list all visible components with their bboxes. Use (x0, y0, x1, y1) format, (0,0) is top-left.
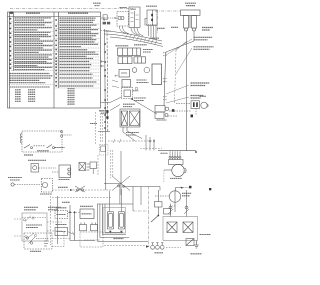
interlock switch cluster (24, 233, 52, 249)
latch switch box (90, 162, 97, 169)
splice junction star (104, 151, 160, 195)
small flag component (186, 239, 194, 246)
tall rectangle panel (152, 64, 162, 85)
long dashed bottom wire (104, 245, 146, 247)
ground symbol (194, 241, 199, 249)
relay R box (80, 205, 93, 207)
left column row numbers (10, 18, 12, 69)
door lock labels (24, 154, 33, 156)
right column row separators (54, 24, 101, 88)
callout 1 (166, 39, 192, 55)
connection verticals (70, 205, 95, 241)
blower connector box (169, 160, 184, 165)
element feed bus (97, 204, 148, 242)
feed vertical right (151, 190, 158, 222)
branch arrowheads (101, 60, 105, 67)
right column row text (60, 17, 96, 19)
right wire run 2 (175, 50, 177, 103)
heating element pair E1 (120, 109, 140, 127)
supply text blobs (157, 27, 165, 29)
relay inner text (26, 224, 42, 226)
bake element E3 (118, 212, 124, 230)
callout 2 (176, 48, 192, 74)
feed wire labels (161, 152, 168, 154)
harness labels (150, 37, 159, 39)
element label (114, 238, 124, 240)
fan relay cluster (155, 104, 191, 119)
oven light lamp L3 (11, 179, 53, 193)
door lock assembly (20, 131, 72, 152)
callout 4 (166, 97, 189, 103)
vertical drop wires (96, 110, 113, 178)
relay block K2 (134, 57, 146, 63)
oven switch S2 (145, 10, 157, 26)
connector pins P5 (151, 243, 164, 249)
door switch S3 (52, 165, 71, 178)
latch assembly dashed box (100, 145, 109, 156)
center bottom label (62, 201, 70, 203)
terminal block TB1 (181, 10, 201, 31)
part number text top (93, 2, 101, 4)
cluster exit wires (52, 232, 70, 247)
ground label (191, 253, 202, 255)
splice feed dashed wire (52, 189, 112, 191)
harness tick marks (126, 33, 157, 45)
thermal switch box (56, 207, 67, 209)
chassis boundary dash-dot line (10, 9, 180, 34)
vertical drops right of mid (146, 135, 154, 151)
wire color legend heading (10, 86, 50, 88)
probe arrows (112, 75, 119, 88)
right column bottom list (68, 88, 75, 90)
dashed enclosure bottom-center (80, 232, 103, 247)
oven sensor label (130, 98, 133, 100)
latch relay K3 (22, 213, 47, 241)
oven light label (8, 177, 22, 179)
left column row text (15, 17, 52, 19)
hi-limit label (126, 132, 139, 134)
stray terminal mark (209, 188, 211, 190)
cluster label (30, 250, 41, 252)
lamp label (40, 193, 52, 195)
receptacle feed wires (168, 190, 189, 217)
table header text (10, 12, 13, 14)
arrow to elements (68, 232, 75, 235)
receptacle label right (200, 234, 211, 236)
element box label (123, 103, 135, 105)
micro switch with X (79, 163, 90, 171)
thermostat box (122, 80, 131, 88)
sensor branch wires (101, 97, 122, 103)
oven lamp label (120, 7, 128, 9)
wires into relay (14, 219, 62, 236)
trailing dashes (166, 247, 181, 249)
wire to fan assembly (133, 100, 158, 115)
surface units feed wire (140, 148, 162, 150)
lower thermal box label (56, 224, 67, 226)
harness lead-in dashes (101, 30, 112, 32)
cooling fan motor B1 (191, 101, 209, 118)
blower motor B3 (164, 164, 186, 182)
oven sensor dashed box (122, 87, 133, 98)
right wire run 3 (186, 31, 188, 151)
supply lead diagonals (166, 31, 194, 52)
junction box J1 (103, 15, 107, 20)
notes paragraph (10, 73, 50, 75)
fan cluster label (157, 119, 167, 121)
to surface switches note (99, 110, 108, 112)
wires below elements (98, 105, 142, 142)
element ground arrows (109, 231, 112, 234)
harness text mid (90, 123, 97, 125)
long dashed wire low (52, 197, 112, 199)
latch relay labels (24, 206, 38, 208)
convection fan label (182, 192, 192, 194)
supply lead label (202, 27, 213, 29)
bottom-left vertical wires (50, 196, 52, 245)
control module box (119, 70, 130, 78)
main harness vertical wire (105, 29, 108, 190)
aux circle (144, 67, 150, 73)
door switch label (59, 179, 70, 181)
oven light switch label (28, 159, 46, 161)
lower splice (75, 186, 85, 192)
oven switch label (146, 5, 154, 7)
oven light switch S4 (31, 164, 56, 173)
cooling fan label above (200, 95, 207, 97)
small pilot circle (135, 87, 138, 90)
small component boxes above dashed enclosure (80, 223, 98, 231)
dash-dot link right (133, 187, 149, 246)
wire connector clips (163, 52, 167, 100)
connector label (155, 252, 164, 254)
connector P1 label (116, 45, 129, 47)
indicator lamp L2 (132, 68, 137, 73)
convection fan motor B2 (155, 186, 192, 214)
sensor side text (133, 90, 139, 92)
lower thermal box (55, 228, 68, 236)
blower label (170, 177, 182, 179)
element enclosure (103, 208, 126, 234)
blower wires with coils (169, 151, 181, 159)
right column row numbers (55, 19, 57, 86)
surface unit receptacle box (163, 217, 198, 241)
oven lamp assembly L1 (101, 12, 129, 27)
terminal block label (185, 2, 196, 4)
junction labels (103, 22, 111, 25)
connector P1 (118, 48, 141, 56)
right wire run 1 (164, 52, 166, 106)
small box on feed (155, 202, 163, 208)
selector switch label (131, 8, 137, 10)
notes table frame (8, 12, 101, 108)
broil element E2 (107, 212, 113, 230)
element lead wires (110, 185, 142, 212)
callout 3 (166, 85, 189, 94)
harness bundle wires (104, 26, 163, 47)
left column row separators (8, 22, 55, 71)
wire color legend list (15, 89, 21, 91)
relay block K1 (118, 57, 132, 64)
connector P1 note (143, 49, 153, 51)
harness junction nodes (104, 43, 108, 129)
selector switch S1 (129, 7, 140, 28)
thermostat label (137, 79, 147, 81)
door lock connector bumps (60, 130, 62, 137)
dashed run mid (108, 140, 152, 142)
